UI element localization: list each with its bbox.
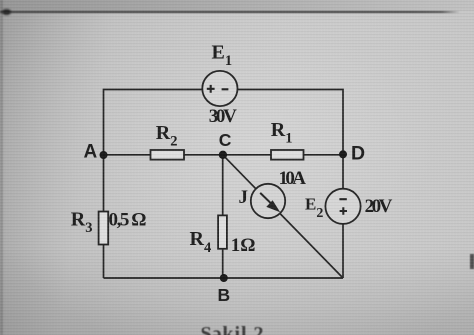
wire J to bottom-right corner [280,214,343,278]
voltage source E2 (circle) [325,189,360,224]
svg-text:R2: R2 [156,122,178,149]
wire A to R2 [104,154,151,156]
wire top-left (node A up to top rail, to E1) [104,90,203,156]
wire top-right (E1 to top-right corner down to node D) [238,90,344,155]
wire C to R1 [223,154,271,156]
resistor R1 (box) [271,150,304,160]
node C junction dot [219,151,227,159]
E2 polarity marks - + [339,199,347,215]
svg-text:E1: E1 [212,42,233,69]
J arrow [260,193,280,212]
node D junction dot [339,150,347,158]
svg-text:E2: E2 [305,195,323,222]
wire C down through R4 to node B [222,155,224,278]
voltage source E1 (circle) [202,71,237,106]
svg-text:J: J [239,187,249,208]
svg-text:0,5 Ω: 0,5 Ω [109,209,147,230]
wire A down through R3 to bottom-left corner [103,155,105,278]
resistor R2 (box) [151,150,185,160]
svg-text:20V: 20V [365,196,393,217]
svg-text:B: B [218,285,231,305]
svg-text:A: A [84,142,98,163]
wire bottom rail B [104,277,344,279]
svg-text:C: C [219,130,232,150]
node A junction dot [100,151,108,159]
svg-text:R4: R4 [190,228,212,256]
svg-text:10A: 10A [279,168,307,189]
wire R1 to D [304,154,344,156]
wire E2 down to bottom-right corner [342,224,344,278]
svg-text:D: D [351,143,365,165]
current source J (circle) [251,184,285,218]
svg-text:Şəkil 2: Şəkil 2 [201,323,264,335]
svg-text:R1: R1 [271,119,293,146]
svg-text:30V: 30V [209,106,237,127]
svg-text:1Ω: 1Ω [231,235,256,256]
resistor R4 (box) [218,215,227,248]
wire D down to E2 [342,154,344,188]
wire R2 to C [184,154,223,156]
svg-text:R3: R3 [71,209,93,236]
node B junction dot [220,274,228,282]
wire diagonal C to J [223,155,256,189]
E1 polarity marks + - [207,85,229,93]
resistor R3 (box) [99,212,109,245]
